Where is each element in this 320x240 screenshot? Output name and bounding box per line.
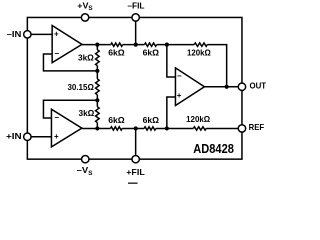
svg-text:+: + — [54, 132, 59, 141]
svg-text:30.15Ω: 30.15Ω — [67, 83, 94, 92]
svg-text:+IN: +IN — [6, 131, 22, 141]
svg-text:REF: REF — [249, 122, 265, 132]
svg-text:3kΩ: 3kΩ — [78, 53, 94, 62]
svg-text:3kΩ: 3kΩ — [78, 109, 94, 118]
svg-text:6kΩ: 6kΩ — [108, 116, 125, 125]
svg-text:OUT: OUT — [249, 81, 266, 91]
svg-text:+FIL: +FIL — [126, 167, 145, 177]
svg-text:6kΩ: 6kΩ — [143, 116, 160, 125]
svg-text:+: + — [54, 30, 59, 39]
svg-text:–IN: –IN — [7, 29, 22, 39]
svg-text:–V: –V — [77, 165, 89, 175]
svg-text:6kΩ: 6kΩ — [108, 49, 125, 58]
svg-text:6kΩ: 6kΩ — [143, 49, 160, 58]
svg-text:S: S — [88, 5, 92, 12]
svg-text:−: − — [54, 113, 59, 122]
svg-text:120kΩ: 120kΩ — [187, 49, 211, 58]
svg-text:+: + — [177, 91, 182, 100]
svg-text:−: − — [54, 49, 59, 58]
svg-text:120kΩ: 120kΩ — [186, 115, 210, 124]
svg-text:AD8428: AD8428 — [193, 141, 234, 156]
svg-text:–FIL: –FIL — [127, 1, 144, 11]
svg-text:S: S — [88, 170, 92, 177]
svg-text:−: − — [177, 72, 182, 81]
svg-text:+V: +V — [77, 1, 89, 11]
